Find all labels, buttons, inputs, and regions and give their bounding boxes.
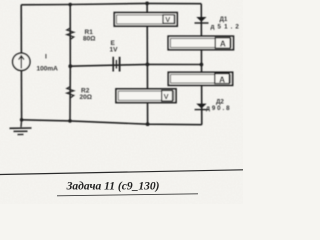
junction dot mid right (200, 63, 204, 67)
svg-text:д90.8: д90.8 (206, 105, 231, 112)
paper grain (0, 0, 243, 204)
junction dot bottom R branch (68, 119, 72, 123)
current source arrow (19, 56, 24, 69)
diode D2 label (206, 98, 231, 112)
svg-text:80Ω: 80Ω (83, 35, 95, 42)
wire left vertical (20, 5, 22, 53)
wire bottom rail (22, 120, 202, 125)
caption rule top (0, 170, 243, 175)
junction node A (68, 64, 72, 68)
battery label E 1V (110, 40, 119, 54)
svg-text:20Ω: 20Ω (80, 94, 92, 101)
ammeter A1 body (168, 36, 233, 50)
wire R branch vertical (69, 5, 71, 121)
svg-text:Задача 11 (с9_130): Задача 11 (с9_130) (66, 181, 160, 193)
wire center branch x147 (146, 3, 149, 124)
wire right branch x201 (200, 4, 203, 125)
wire left vertical lower (20, 71, 22, 120)
svg-text:1V: 1V (110, 47, 119, 54)
current source label I 100mA (37, 54, 59, 73)
current source I1 circle (13, 53, 30, 70)
ground (10, 120, 32, 135)
wire top rail (21, 3, 201, 4)
wire middle rail (70, 64, 201, 66)
junction dot top center branch (145, 2, 149, 6)
diode D1 (195, 17, 209, 23)
junction dot bottom left (20, 118, 24, 122)
resistor R2 label (80, 88, 92, 102)
junction dot top R branch (68, 3, 72, 7)
ammeter A2 body (168, 72, 232, 85)
junction dot bottom center (146, 122, 150, 126)
resistor R1 zigzag (67, 28, 74, 40)
svg-text:V: V (164, 92, 169, 101)
svg-text:A: A (219, 75, 225, 84)
svg-text:д51.2: д51.2 (211, 23, 242, 30)
caption underline (57, 194, 198, 196)
diode D1 label (211, 16, 242, 31)
junction dot mid center (146, 63, 150, 67)
resistor R1 label (83, 29, 95, 42)
svg-text:100mA: 100mA (37, 66, 59, 73)
resistor R2 zigzag (67, 87, 74, 99)
svg-text:Д1: Д1 (220, 16, 228, 23)
voltmeter V2 body (116, 89, 176, 103)
svg-text:I: I (45, 54, 47, 61)
battery E plates (113, 57, 119, 72)
diode D2 (195, 104, 209, 110)
voltmeter V1 body (114, 13, 177, 27)
svg-text:A: A (220, 40, 226, 49)
svg-text:V: V (165, 15, 170, 24)
